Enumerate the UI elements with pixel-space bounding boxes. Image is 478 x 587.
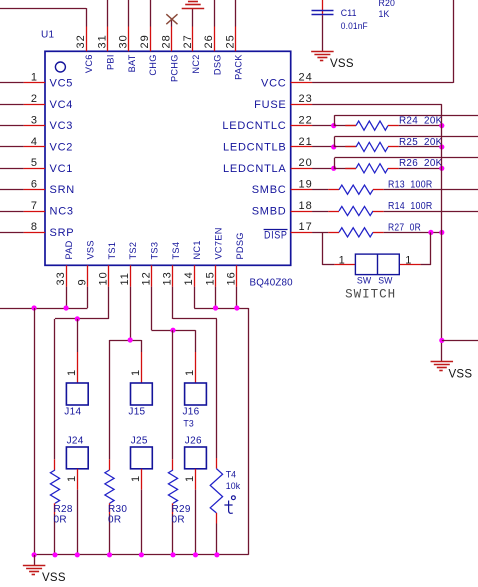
jumper J24: [66, 447, 88, 469]
resistor R28 0R: [54, 319, 56, 459]
svg-text:32: 32: [75, 34, 87, 48]
wire to pin 4: [0, 146, 24, 148]
svg-text:J26: J26: [185, 435, 202, 446]
svg-text:22: 22: [299, 114, 313, 126]
wire to pin 7: [0, 211, 24, 213]
thermistor T4 10k: [216, 458, 218, 469]
node junction on ground bus: [214, 552, 219, 557]
wire pin 27 to ground: [192, 8, 194, 26]
pin 6 SRN: [24, 189, 45, 191]
wire TS4 net to T4: [172, 287, 174, 319]
svg-text:24: 24: [299, 72, 313, 84]
svg-text:TS3: TS3: [150, 242, 160, 260]
svg-text:NC1: NC1: [192, 240, 202, 259]
svg-text:VCC: VCC: [261, 77, 286, 89]
pin 31 PBI: [107, 27, 109, 52]
pin 1 VC5: [24, 82, 45, 84]
svg-text:2: 2: [31, 93, 38, 105]
pin 28 PCHG: [171, 27, 173, 52]
node junction VC7EN: [213, 305, 218, 310]
node junction on ground bus: [139, 552, 144, 557]
resistor R27 0R: [312, 232, 328, 234]
svg-text:16: 16: [226, 271, 238, 285]
svg-text:TS1: TS1: [107, 242, 117, 260]
resistor R13 100R: [312, 189, 328, 191]
wire bus branch to right edge: [442, 340, 478, 342]
svg-text:1: 1: [339, 254, 346, 266]
wire pin 26 up to edge: [214, 0, 216, 27]
switch SWITCH body: [355, 254, 399, 275]
svg-text:21: 21: [299, 136, 313, 148]
svg-text:VSS: VSS: [330, 58, 354, 70]
svg-text:BQ40Z80: BQ40Z80: [250, 278, 294, 289]
pin 33 PAD: [66, 265, 68, 286]
svg-text:26: 26: [203, 34, 215, 48]
node junction PDSG: [234, 305, 239, 310]
no-connect X on pin 28: [166, 14, 177, 24]
svg-text:1: 1: [184, 369, 196, 376]
wire R13 to right edge: [384, 189, 478, 191]
svg-text:R25 20K: R25 20K: [399, 137, 443, 148]
wire pin 24 VCC to right: [312, 82, 453, 84]
pin 32 VC6: [86, 27, 88, 52]
pin 15 VC7EN: [215, 265, 217, 286]
resistor R26 20K: [334, 168, 356, 170]
svg-text:J25: J25: [131, 435, 148, 446]
wire pin 23 FUSE to bus: [312, 104, 442, 106]
svg-text:1: 1: [184, 475, 196, 482]
wire line A PAD/VSS net: [66, 287, 68, 308]
svg-text:R14 100R: R14 100R: [388, 201, 433, 212]
wire drop to J15: [141, 340, 143, 352]
pin 2 VC4: [24, 104, 45, 106]
wire ground bus: [34, 554, 249, 556]
svg-text:1: 1: [405, 254, 412, 266]
node junction on ground bus: [52, 552, 57, 557]
svg-text:PDSG: PDSG: [235, 232, 245, 259]
svg-text:1: 1: [66, 369, 78, 376]
svg-text:VSS: VSS: [449, 369, 473, 381]
ground VSS bottom: [34, 555, 36, 566]
node junction bus to right edge: [439, 338, 444, 343]
svg-text:14: 14: [183, 271, 195, 285]
wire TS1 net line B: [108, 287, 110, 319]
pin 19 SMBC: [291, 189, 312, 191]
svg-text:R20: R20: [379, 0, 396, 8]
svg-text:11: 11: [119, 272, 131, 285]
ground flipped at pin 27: [182, 8, 205, 10]
thermistor t symbol: [232, 496, 236, 500]
wire VC6 net (pin 32 up and left): [86, 8, 88, 26]
svg-text:R26 20K: R26 20K: [399, 158, 443, 169]
svg-text:4: 4: [31, 136, 38, 148]
node junction on ground bus: [107, 552, 112, 557]
wire loop above R26 to edge: [334, 158, 336, 168]
svg-text:1K: 1K: [379, 9, 390, 19]
svg-text:SRP: SRP: [50, 227, 75, 239]
svg-text:1: 1: [31, 72, 38, 84]
pin 7 NC3: [24, 211, 45, 213]
svg-text:C11: C11: [341, 8, 357, 18]
wire to pin 8: [0, 232, 24, 234]
svg-text:TS2: TS2: [128, 242, 138, 260]
svg-text:VC1: VC1: [50, 163, 74, 175]
wire pin 31 up to edge: [107, 0, 109, 27]
svg-text:31: 31: [96, 34, 108, 48]
svg-text:SMBC: SMBC: [252, 184, 287, 196]
wire left drop to bus: [34, 308, 36, 555]
wire to pin 6: [0, 189, 24, 191]
svg-text:6: 6: [31, 178, 38, 190]
svg-text:R24 20K: R24 20K: [399, 116, 443, 127]
svg-text:PACK: PACK: [234, 54, 244, 80]
svg-text:J15: J15: [128, 407, 145, 418]
ground VSS below C11: [311, 51, 334, 53]
svg-text:VC2: VC2: [50, 141, 74, 153]
jumper J25: [131, 447, 153, 469]
svg-text:SW: SW: [378, 275, 393, 285]
wire J25 to bus: [141, 469, 143, 490]
svg-text:R30: R30: [108, 504, 127, 515]
svg-text:20: 20: [299, 157, 313, 169]
resistor R25 20K: [334, 146, 356, 148]
svg-text:10: 10: [98, 271, 110, 285]
jumper J15: [131, 383, 153, 405]
svg-text:27: 27: [182, 34, 194, 48]
svg-text:CHG: CHG: [148, 54, 158, 75]
node junction switch riser: [428, 230, 433, 235]
node junction pin 11 on line C: [128, 337, 133, 342]
pin 26 DSG: [214, 27, 216, 52]
node junction on ground bus: [193, 552, 198, 557]
svg-text:5: 5: [31, 157, 38, 169]
wire J26 to bus: [195, 469, 197, 490]
svg-text:12: 12: [140, 271, 152, 285]
wire TS3 net line D: [151, 287, 153, 331]
resistor R24 20K: [334, 125, 356, 127]
node junction pin 33 on line A: [64, 305, 69, 310]
capacitor C11 0.01nF: [322, 0, 324, 16]
wire loop above R24 to edge: [334, 115, 336, 125]
svg-text:R29: R29: [172, 504, 191, 515]
svg-text:23: 23: [299, 93, 313, 105]
pin 8 SRP: [24, 232, 45, 234]
svg-text:30: 30: [118, 34, 130, 48]
wire switch right riser: [421, 264, 431, 266]
node junction on ground bus: [31, 552, 36, 557]
resistor R29 0R: [172, 330, 174, 459]
pin 12 TS3: [151, 265, 153, 286]
svg-text:T4: T4: [226, 470, 237, 480]
svg-text:R28: R28: [54, 504, 73, 515]
wire VC7EN stub down: [215, 287, 217, 308]
svg-text:33: 33: [55, 271, 67, 285]
wire to pin 1: [0, 82, 24, 84]
pin 27 NC2: [192, 27, 194, 52]
wire NC1 net: [194, 287, 196, 308]
pin 24 VCC: [291, 82, 312, 84]
svg-text:PBI: PBI: [106, 54, 116, 70]
pin 21 LEDCNTLB: [291, 146, 312, 148]
node junction R24 right on bus: [439, 123, 444, 128]
pin 22 LEDCNTLC: [291, 125, 312, 127]
node junction J14 drop: [75, 316, 80, 321]
svg-text:28: 28: [160, 34, 172, 48]
wire VCC net vertical: [453, 0, 455, 83]
wire pin 28 stub: [171, 19, 173, 27]
svg-text:9: 9: [76, 278, 88, 285]
svg-text:PCHG: PCHG: [170, 54, 180, 82]
svg-text:FUSE: FUSE: [254, 99, 286, 111]
pin 11 TS2: [130, 265, 132, 286]
pin 4 VC2: [24, 146, 45, 148]
svg-text:1: 1: [130, 475, 142, 482]
svg-text:18: 18: [299, 200, 313, 212]
pin 18 SMBD: [291, 211, 312, 213]
svg-text:J16: J16: [183, 407, 200, 418]
pin 9 VSS: [87, 265, 89, 286]
svg-text:1: 1: [130, 369, 142, 376]
svg-text:LEDCNTLB: LEDCNTLB: [223, 141, 286, 153]
svg-text:1: 1: [66, 475, 78, 482]
wire to pin 3: [0, 125, 24, 127]
svg-text:13: 13: [162, 271, 174, 285]
svg-text:8: 8: [31, 221, 38, 233]
pin 5 VC1: [24, 168, 45, 170]
wire drop to J16: [195, 330, 197, 352]
svg-text:TS4: TS4: [171, 242, 181, 260]
svg-text:SW: SW: [357, 275, 372, 285]
wire J24 to bus: [77, 469, 79, 490]
resistor R14 100R: [312, 211, 328, 213]
switch SW pins: [334, 264, 355, 266]
svg-text:DSG: DSG: [212, 54, 222, 75]
wire pin 22 to junction: [312, 125, 334, 127]
svg-text:PAD: PAD: [64, 240, 74, 259]
wire to pin 5: [0, 168, 24, 170]
svg-text:VSS: VSS: [85, 240, 95, 259]
svg-text:LEDCNTLC: LEDCNTLC: [222, 120, 286, 132]
pin 14 NC1: [194, 265, 196, 286]
svg-text:J14: J14: [64, 407, 81, 418]
wire pin 20 to junction: [312, 168, 334, 170]
wire NC1 net drop to bus: [248, 308, 250, 555]
jumper J26: [185, 447, 207, 469]
svg-text:17: 17: [299, 221, 313, 233]
node junction R26 left: [331, 166, 336, 171]
wire FUSE bus vertical: [441, 104, 443, 361]
wire switch left riser: [322, 232, 324, 265]
wire drop to J14: [77, 319, 79, 352]
svg-text:0R: 0R: [172, 515, 185, 526]
svg-text:LEDCNTLA: LEDCNTLA: [223, 163, 286, 175]
svg-text:T3: T3: [183, 419, 194, 429]
pin 16 PDSG: [236, 265, 238, 286]
svg-text:U1: U1: [41, 30, 55, 41]
svg-text:VC6: VC6: [84, 54, 94, 73]
pin 25 PACK: [235, 27, 237, 52]
svg-text:3: 3: [31, 114, 38, 126]
svg-text:25: 25: [224, 34, 236, 48]
node junction R25 right on bus: [439, 144, 444, 149]
node junction R24 left: [331, 123, 336, 128]
pin 20 LEDCNTLA: [291, 168, 312, 170]
svg-text:10k: 10k: [226, 481, 241, 491]
svg-text:R27 0R: R27 0R: [388, 222, 421, 233]
node junction on ground bus: [75, 552, 80, 557]
svg-text:BAT: BAT: [127, 54, 137, 72]
svg-text:0.01nF: 0.01nF: [341, 21, 368, 31]
wire PDSG stub down: [236, 287, 238, 308]
wire loop above R25 to edge: [334, 137, 336, 147]
node junction R29 on line D: [170, 328, 175, 333]
pin 17 DISP: [291, 232, 312, 234]
pin 13 TS4: [172, 265, 174, 286]
svg-text:VC4: VC4: [50, 99, 74, 111]
resistor R30 0R: [109, 340, 111, 459]
node junction on ground bus: [170, 552, 175, 557]
svg-text:SWITCH: SWITCH: [345, 288, 396, 302]
jumper J16: [185, 383, 207, 405]
DISP overline: [264, 229, 288, 231]
pin 29 CHG: [150, 27, 152, 52]
jumper J14: [66, 383, 88, 405]
svg-text:J24: J24: [67, 435, 84, 446]
svg-text:SRN: SRN: [50, 184, 75, 196]
svg-text:NC3: NC3: [50, 206, 74, 218]
wire pin 29 up to edge: [150, 0, 152, 27]
svg-text:VC5: VC5: [50, 77, 74, 89]
svg-text:15: 15: [204, 271, 216, 285]
svg-text:SMBD: SMBD: [252, 206, 287, 218]
wire TS2 net line C: [130, 287, 132, 340]
pin 23 FUSE: [291, 104, 312, 106]
svg-text:0R: 0R: [54, 515, 67, 526]
node junction R25 left: [331, 144, 336, 149]
pin 3 VC3: [24, 125, 45, 127]
svg-text:NC2: NC2: [191, 54, 201, 73]
svg-text:VC7EN: VC7EN: [214, 227, 224, 259]
node junction R26 right on bus: [439, 166, 444, 171]
svg-text:DISP: DISP: [264, 229, 288, 241]
svg-text:VC3: VC3: [50, 120, 74, 132]
wire pin 30 up to edge: [128, 0, 130, 27]
wire R27 to bus: [384, 232, 442, 234]
svg-text:VSS: VSS: [42, 572, 66, 584]
svg-text:29: 29: [139, 34, 151, 48]
pin 30 BAT: [128, 27, 130, 52]
pin 10 TS1: [108, 265, 110, 286]
wire R14 to right edge: [384, 211, 478, 213]
wire pin 25 up to edge: [235, 0, 237, 27]
node junction R27 on bus: [439, 230, 444, 235]
wire to pin 2: [0, 104, 24, 106]
svg-text:19: 19: [299, 178, 313, 190]
svg-text:0R: 0R: [108, 515, 121, 526]
wire pin 21 to junction: [312, 146, 334, 148]
svg-text:7: 7: [31, 200, 38, 212]
node junction line A left drop: [31, 305, 36, 310]
IC U1 BQ40Z80 body: [45, 51, 291, 265]
ground VSS right: [431, 361, 454, 363]
